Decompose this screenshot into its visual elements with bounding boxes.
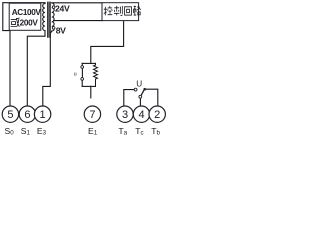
svg-text:E1: E1 xyxy=(88,126,98,137)
svg-text:24V: 24V xyxy=(55,3,70,13)
contact U pivot circle xyxy=(139,95,142,98)
resistor R1 xyxy=(94,63,98,86)
terminal 1 xyxy=(34,106,50,122)
wire 24V output to control box bottom corner xyxy=(54,20,103,22)
label glyph 路 of 控制回路 xyxy=(133,6,140,15)
terminal 5 xyxy=(2,106,18,122)
contact U arm xyxy=(141,90,144,95)
terminal 4 xyxy=(133,106,149,122)
wire contact U to Tb terminal xyxy=(145,89,158,106)
label glyph 制 of 控制回路 xyxy=(114,6,122,16)
transformer core xyxy=(48,2,50,37)
wire contact U pivot to Tc terminal xyxy=(139,98,141,106)
wire Ta riser to contact U xyxy=(124,90,134,106)
svg-text:E3: E3 xyxy=(37,126,47,137)
svg-text:S0: S0 xyxy=(5,126,15,137)
svg-text:1: 1 xyxy=(40,109,46,121)
svg-text:5: 5 xyxy=(7,109,13,121)
svg-text:4: 4 xyxy=(138,109,144,121)
svg-text:Tc: Tc xyxy=(135,126,143,137)
svg-text:8V: 8V xyxy=(56,25,66,35)
transformer T1 primary winding xyxy=(43,4,45,31)
wire primary bottom to S1 riser xyxy=(27,31,45,106)
node bar bottom of parallel combo xyxy=(82,85,95,87)
wire secondary bottom to E3 terminal xyxy=(43,31,52,106)
contact u upper circle xyxy=(81,66,84,69)
svg-text:Tb: Tb xyxy=(151,126,160,137)
svg-text:AC100V: AC100V xyxy=(12,8,42,17)
wire combo to E1 terminal xyxy=(90,86,92,98)
AC source box xyxy=(9,3,41,30)
svg-text:U: U xyxy=(136,80,142,89)
svg-text:7: 7 xyxy=(89,109,95,121)
label glyph 控 of 控制回路 xyxy=(104,6,113,15)
label glyph 回 of 控制回路 xyxy=(125,7,132,15)
contact u blade xyxy=(81,68,83,77)
svg-text:6: 6 xyxy=(24,109,30,121)
svg-text:2: 2 xyxy=(154,109,160,121)
label glyph 或 of 或200V xyxy=(11,18,20,27)
terminal 6 xyxy=(19,106,35,122)
node bar top of parallel combo xyxy=(82,62,95,64)
terminal 2 xyxy=(149,106,165,122)
svg-text:u: u xyxy=(74,71,77,77)
contact U left circle xyxy=(134,88,137,91)
svg-text:Ta: Ta xyxy=(118,126,127,137)
terminal 7 xyxy=(84,106,100,122)
tap circle 24V xyxy=(52,6,55,9)
control circuit box xyxy=(102,3,139,21)
contact u upper lead xyxy=(81,63,83,65)
wire secondary top to control box xyxy=(52,2,102,4)
svg-text:S1: S1 xyxy=(21,126,31,137)
transformer T1 secondary winding xyxy=(52,3,54,31)
svg-text:3: 3 xyxy=(122,109,128,121)
terminal 3 xyxy=(117,106,133,122)
wire control box to parallel combo xyxy=(91,21,124,64)
contact U fixed dot xyxy=(143,88,146,91)
tap circle 8V xyxy=(52,27,55,30)
contact u lower circle xyxy=(81,78,84,81)
svg-text:200V: 200V xyxy=(20,18,39,27)
contact u lower lead xyxy=(81,80,83,86)
wire S0 riser and top feed to transformer primary xyxy=(3,3,45,106)
